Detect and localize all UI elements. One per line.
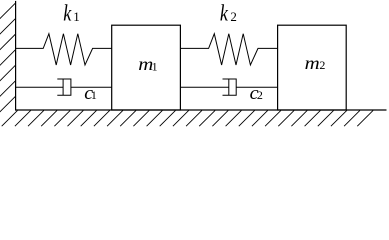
svg-text:1: 1	[91, 88, 97, 102]
svg-text:2: 2	[230, 9, 237, 24]
damper c2 rod right	[236, 86, 277, 88]
svg-text:1: 1	[152, 60, 158, 74]
svg-text:m: m	[305, 54, 320, 73]
mass m2 box	[278, 25, 347, 110]
svg-text:2: 2	[319, 58, 325, 72]
wall (left fixed support)	[15, 1, 17, 111]
wall hatching	[0, 3, 16, 113]
svg-text:k: k	[220, 2, 229, 26]
svg-text:k: k	[63, 2, 72, 26]
damper c1 piston plate	[62, 79, 64, 95]
spring k1	[16, 34, 112, 65]
damper c2 cylinder cup	[223, 79, 237, 95]
damper c2 rod left	[180, 86, 228, 88]
mass m1 box	[112, 25, 181, 110]
ground line	[16, 109, 387, 111]
svg-text:2: 2	[257, 88, 263, 102]
damper c1 rod left	[16, 86, 64, 88]
spring k2	[180, 34, 277, 65]
damper c1 rod right	[71, 86, 112, 88]
damper c1 cylinder cup	[57, 79, 71, 95]
damper c2 piston plate	[228, 79, 230, 95]
ground hatching	[2, 110, 373, 126]
svg-text:1: 1	[73, 9, 80, 24]
